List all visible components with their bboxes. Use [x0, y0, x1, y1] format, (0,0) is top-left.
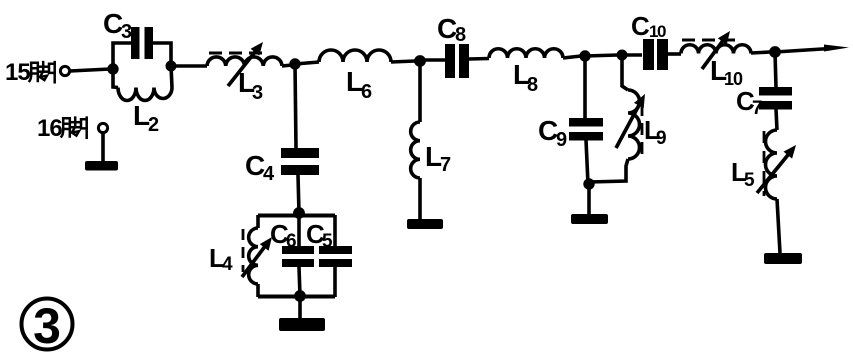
- inductor L3 (variable): [207, 57, 282, 66]
- arrow L10: [702, 37, 725, 69]
- wire F to C10: [622, 53, 642, 57]
- svg-text:16: 16: [37, 115, 62, 142]
- capacitor C5: [319, 246, 352, 254]
- wire C8 to L8: [469, 57, 489, 61]
- inductor L9 (variable): [628, 90, 640, 159]
- wire block right top: [333, 215, 337, 246]
- svg-text:8: 8: [455, 24, 466, 46]
- node A: [107, 63, 118, 74]
- wire C7 to L5: [776, 109, 777, 130]
- arrow L3: [228, 48, 258, 86]
- dashed core line L9: [641, 104, 644, 158]
- svg-text:6: 6: [286, 231, 297, 252]
- svg-text:10: 10: [649, 22, 666, 41]
- svg-text:C: C: [631, 11, 650, 41]
- wire C9 to node G: [586, 140, 588, 184]
- figure number circle 3: [22, 299, 73, 350]
- capacitor C9: [569, 118, 603, 127]
- node F: [617, 50, 628, 61]
- svg-text:8: 8: [527, 74, 538, 96]
- svg-text:15: 15: [5, 59, 30, 86]
- svg-text:3: 3: [252, 82, 263, 104]
- svg-text:4: 4: [222, 254, 233, 275]
- node I: [293, 207, 305, 219]
- svg-text:3: 3: [121, 21, 132, 43]
- wire C10 to L10: [668, 52, 681, 56]
- wire C4 to node I: [298, 175, 299, 213]
- svg-text:6: 6: [361, 81, 372, 103]
- wire L7 to ground: [418, 178, 422, 220]
- dashed core line L3: [209, 52, 268, 55]
- wire B to L3: [171, 64, 207, 68]
- wire block middle bottom: [299, 267, 300, 296]
- dashed core line L5: [763, 131, 766, 196]
- wire E to F: [585, 55, 618, 56]
- svg-text:5: 5: [322, 231, 333, 252]
- svg-text:9: 9: [656, 128, 667, 149]
- inductor L4 (variable): [249, 228, 258, 284]
- node H: [769, 46, 781, 58]
- svg-text:7: 7: [440, 154, 451, 176]
- inductor L10 (variable): [681, 45, 751, 54]
- dashed core line L10: [682, 39, 740, 42]
- capacitor C6: [282, 246, 314, 254]
- wire J to ground: [298, 296, 302, 319]
- wire L5 to ground: [777, 199, 780, 253]
- ground (C9/L9): [571, 214, 608, 224]
- wire block left bottom: [256, 284, 260, 297]
- arrow L4: [242, 243, 267, 277]
- wire L8 to node E: [563, 56, 581, 58]
- capacitor C8: [445, 44, 455, 78]
- inductor L6: [319, 50, 391, 62]
- capacitor C4: [281, 148, 319, 158]
- wire block middle top: [297, 215, 301, 246]
- wire L9 bottom to node G: [589, 159, 628, 182]
- inductor L2: [113, 69, 118, 88]
- arrow L9: [616, 101, 641, 148]
- node E: [579, 50, 590, 61]
- node G: [583, 178, 594, 189]
- wire block bottom: [258, 295, 335, 299]
- ground (L7): [407, 219, 443, 229]
- arrow L5: [757, 151, 791, 193]
- wire block right bottom: [333, 267, 337, 297]
- wire 16 pin to ground: [101, 133, 105, 162]
- terminal 15脚 input circle: [60, 66, 69, 75]
- wire D to C8: [420, 58, 445, 62]
- wire C to L6: [295, 62, 319, 64]
- output arrowhead: [824, 45, 849, 52]
- inductor L8: [489, 49, 563, 58]
- wire block top: [258, 214, 335, 218]
- ground (L5): [764, 253, 802, 264]
- wire H down to C7: [775, 52, 776, 87]
- wire L3 to node C: [282, 65, 292, 66]
- wire C3 top branch: [113, 43, 171, 69]
- node J: [294, 290, 306, 302]
- svg-text:4: 4: [263, 163, 275, 185]
- svg-text:9: 9: [556, 129, 567, 151]
- wire output: [775, 49, 830, 53]
- ground (16 pin): [85, 161, 118, 171]
- dashed core line L4: [242, 229, 245, 272]
- ground (block): [279, 318, 325, 331]
- wire G to ground: [587, 184, 591, 215]
- wire E down to C9: [583, 56, 587, 118]
- terminal 16脚 circle: [98, 123, 107, 132]
- svg-text:5: 5: [744, 170, 755, 191]
- inductor L7: [411, 122, 420, 178]
- svg-text:2: 2: [148, 114, 159, 136]
- wire L10 to node H: [751, 52, 770, 53]
- capacitor C7: [759, 87, 792, 96]
- wire block left top: [256, 215, 260, 228]
- wire D down to L7: [418, 61, 422, 122]
- wire C down to C4: [295, 64, 296, 148]
- node D: [414, 55, 426, 67]
- svg-text:7: 7: [752, 98, 763, 119]
- node C: [289, 58, 300, 69]
- capacitor C10: [643, 39, 654, 70]
- inductor L5 (variable): [766, 130, 778, 199]
- wire input to node A: [70, 69, 110, 71]
- wire F down to L9: [622, 55, 628, 90]
- capacitor C3: [131, 27, 140, 59]
- svg-text:3: 3: [33, 298, 61, 354]
- node B: [166, 61, 177, 72]
- wire L6 to node D: [391, 61, 415, 62]
